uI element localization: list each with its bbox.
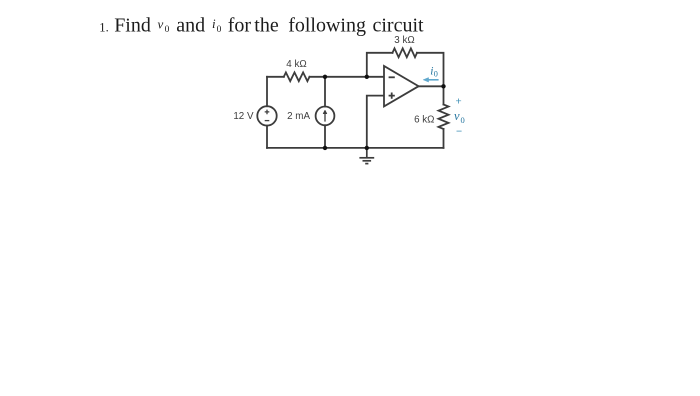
svg-text:for: for	[228, 14, 252, 36]
svg-text:v: v	[158, 17, 164, 32]
svg-text:2 mA: 2 mA	[287, 111, 310, 122]
wire: feedback left vertical	[367, 53, 393, 77]
current source I1 2mA circle	[316, 107, 335, 126]
wire: left branch bottom	[266, 126, 268, 148]
current source arrow	[323, 110, 327, 122]
voltage source plus minus marks	[265, 110, 270, 121]
svg-text:v: v	[454, 109, 460, 123]
svg-text:1.: 1.	[99, 20, 108, 34]
svg-text:12 V: 12 V	[233, 111, 254, 122]
svg-text:0: 0	[461, 115, 465, 125]
resistor R 6k zigzag vertical	[439, 105, 449, 130]
node dot B (feedback / minus input junction)	[365, 75, 369, 79]
op-amp plus sign	[389, 93, 395, 99]
svg-text:i: i	[212, 16, 216, 31]
resistor R 4k zigzag	[284, 72, 310, 81]
svg-text:following: following	[288, 14, 366, 36]
node dot bottom ground	[365, 146, 369, 150]
svg-text:0: 0	[217, 25, 222, 35]
wire: top wire to op-amp minus input	[310, 76, 385, 78]
wire: 2mA branch bottom	[324, 125, 326, 148]
svg-text:6 kΩ: 6 kΩ	[414, 114, 434, 125]
title	[99, 14, 424, 36]
resistor R 3k zigzag	[393, 48, 418, 57]
svg-text:3 kΩ: 3 kΩ	[394, 35, 414, 46]
voltage source V1 12V circle	[257, 106, 276, 125]
ground	[359, 148, 374, 164]
svg-text:circuit: circuit	[373, 14, 425, 36]
op-amp minus sign	[389, 76, 395, 78]
node dot bottom 2mA	[323, 146, 327, 150]
wire: right branch top (node to 6k)	[443, 86, 445, 104]
wire: 2mA branch top	[324, 77, 326, 107]
op-amp U1 triangle	[384, 66, 419, 106]
svg-text:0: 0	[165, 25, 170, 35]
node dot output	[441, 84, 445, 88]
wire: bottom wire	[267, 147, 444, 149]
svg-text:0: 0	[434, 70, 438, 79]
svg-text:4 kΩ: 4 kΩ	[286, 59, 306, 70]
svg-text:+: +	[456, 96, 462, 108]
wire: right branch bottom	[443, 129, 445, 148]
node dot A (4k/2mA junction)	[323, 75, 327, 79]
wire: feedback right down to output node	[417, 53, 444, 87]
wire: top wire left segment	[267, 76, 284, 78]
svg-text:Find: Find	[114, 14, 151, 36]
wire: plus input to ground branch	[367, 96, 384, 148]
svg-text:−: −	[456, 126, 462, 138]
svg-text:and: and	[176, 14, 205, 36]
wire: left branch top	[266, 77, 268, 106]
wire: op-amp output	[419, 85, 444, 87]
svg-text:the: the	[254, 14, 279, 36]
current arrow i_o	[423, 78, 439, 83]
